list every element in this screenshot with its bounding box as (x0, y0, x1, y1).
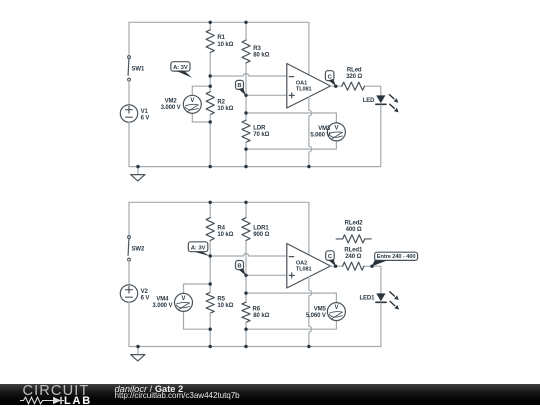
svg-text:R6: R6 (253, 306, 261, 312)
svg-text:Entre 240 - 400: Entre 240 - 400 (377, 254, 416, 260)
node A junction (209, 74, 212, 77)
svg-text:5.060 V: 5.060 V (310, 133, 330, 139)
op-amp OA2 (287, 244, 331, 289)
node B callout (bottom) (236, 261, 244, 270)
junction R6 rail (244, 345, 247, 348)
LED emission arrows (389, 95, 394, 99)
svg-text:10 kΩ: 10 kΩ (217, 232, 233, 238)
wire left rail upper segment (128, 22, 130, 56)
node ground junction (136, 165, 139, 168)
junction VM4 top (209, 282, 212, 285)
op-amp OA1 (287, 64, 331, 109)
wire bottom rail (2) (129, 346, 381, 348)
junction V- rail (307, 165, 310, 168)
resistor R4 (209, 202, 211, 217)
CircuitLab logo text (23, 383, 90, 399)
svg-text:A: 3V: A: 3V (173, 65, 188, 71)
junction R6 bottom / VM5 (244, 328, 247, 331)
wire op-amp V- stub (309, 97, 312, 167)
voltmeter VM3 (246, 113, 336, 123)
wire V1 to bottom rail (128, 122, 130, 166)
junction VM2 bottom (209, 120, 212, 123)
switch SW1 (127, 59, 130, 76)
junction LDR bottom / VM3 (244, 147, 247, 150)
switch SW2 (127, 239, 130, 256)
wire non-inverting input (node B to op-amp) (246, 94, 287, 96)
LED (376, 95, 385, 103)
wire switch to V2 (128, 261, 130, 285)
junction VM4 bottom (209, 328, 212, 331)
svg-text:LED1: LED1 (359, 296, 375, 302)
svg-text:VM2: VM2 (165, 98, 178, 104)
svg-text:B: B (237, 83, 241, 89)
voltmeter VM2 (192, 86, 210, 95)
ground (137, 167, 139, 175)
junction R5 bottom rail (209, 345, 212, 348)
voltage source V2 (120, 285, 137, 302)
junction R4 top (209, 201, 212, 204)
photoresistor LDR1 (245, 202, 247, 217)
svg-text:RLed1: RLed1 (344, 248, 363, 254)
node C junction (2) (334, 265, 337, 268)
footer title line (115, 384, 184, 394)
svg-text:A: 3V: A: 3V (191, 246, 206, 252)
svg-text:3.000 V: 3.000 V (152, 303, 172, 309)
node C callout (top) (325, 71, 334, 81)
resistor RLed2 (unconnected) (336, 238, 343, 240)
voltmeter VM4 (184, 284, 211, 294)
node A callout (bottom) (188, 242, 208, 252)
svg-text:6 V: 6 V (141, 116, 150, 122)
svg-text:3.000 V: 3.000 V (161, 105, 181, 111)
ground (2) (137, 347, 139, 355)
svg-text:80 kΩ: 80 kΩ (253, 53, 269, 59)
LED1 emission arrows (390, 292, 395, 296)
resistor R2 (206, 92, 214, 115)
node C callout (bottom) (326, 251, 335, 261)
svg-text:RLed2: RLed2 (345, 220, 364, 226)
svg-text:B: B (237, 264, 241, 270)
junction R2 bottom rail (209, 165, 212, 168)
svg-text:LDR1: LDR1 (253, 226, 269, 232)
node A callout (top) (171, 62, 190, 71)
wire top rail and op-amp V+ stub (129, 22, 309, 75)
svg-text:V2: V2 (141, 289, 149, 295)
svg-text:R5: R5 (217, 297, 225, 303)
junction Entre annotation anchor (370, 265, 373, 268)
wire top rail and op-amp V+ stub (2) (129, 202, 309, 255)
wire inverting input (node A to op-amp) (210, 74, 287, 76)
svg-text:TL081: TL081 (296, 266, 312, 272)
wire left rail upper segment (2) (128, 202, 130, 236)
svg-text:400 Ω: 400 Ω (346, 227, 362, 233)
resistor R5 (206, 292, 214, 313)
wire switch to V1 (128, 81, 130, 105)
svg-text:LED: LED (363, 98, 375, 104)
svg-text:V: V (334, 305, 338, 311)
voltage source V1 (120, 105, 137, 122)
svg-text:VM5: VM5 (314, 307, 327, 313)
svg-text:5.060 V: 5.060 V (306, 313, 326, 319)
svg-text:900 Ω: 900 Ω (253, 232, 269, 238)
wire non-inverting input (node B to op-amp) (2) (246, 274, 287, 276)
wire bottom rail (129, 166, 381, 168)
svg-text:SW1: SW1 (132, 67, 145, 73)
svg-text:R2: R2 (217, 99, 225, 105)
wire op-amp V- stub (2) (309, 277, 312, 347)
svg-text:VM3: VM3 (318, 126, 331, 132)
svg-text:6 V: 6 V (141, 296, 150, 302)
wire inverting input (node A to op-amp) (2) (210, 254, 287, 256)
svg-text:V: V (334, 126, 338, 132)
LED1 (376, 293, 385, 301)
svg-text:R4: R4 (217, 226, 225, 232)
svg-text:240 Ω: 240 Ω (345, 254, 361, 260)
svg-text:SW2: SW2 (132, 247, 145, 253)
svg-text:V1: V1 (141, 109, 149, 115)
junction VM2 top (209, 85, 212, 88)
svg-text:V: V (182, 296, 186, 302)
footer bar (0, 384, 540, 405)
CircuitLab logo resistor-diode glyph (20, 396, 66, 405)
node A junction (2) (209, 254, 212, 257)
photoresistor LDR (242, 120, 250, 142)
svg-text:10 kΩ: 10 kΩ (217, 106, 233, 112)
svg-text:70 kΩ: 70 kΩ (253, 132, 269, 138)
junction R1 top (209, 21, 212, 24)
wire op-amp output lead (2) (331, 265, 336, 267)
svg-text:10 kΩ: 10 kΩ (217, 303, 233, 309)
svg-text:R3: R3 (253, 46, 261, 52)
svg-text:R1: R1 (217, 35, 225, 41)
node B callout (top) (236, 80, 244, 89)
node C junction (334, 85, 337, 88)
resistor RLed1 (336, 265, 343, 267)
junction V- rail (2) (307, 345, 310, 348)
resistor RLed (336, 85, 342, 87)
resistor R1 (209, 22, 211, 30)
svg-text:V: V (190, 98, 194, 104)
node ground junction (2) (136, 345, 139, 348)
junction R3 top (244, 21, 247, 24)
junction R6 top / VM5 (244, 291, 247, 294)
resistor R6 (242, 302, 250, 322)
footer url line (115, 391, 240, 400)
svg-text:TL081: TL081 (296, 86, 312, 92)
svg-text:320 Ω: 320 Ω (346, 74, 362, 80)
junction LDR top / VM3 (244, 111, 247, 114)
wire V2 to bottom rail (128, 302, 130, 346)
LAB logo text (64, 395, 92, 407)
svg-text:VM4: VM4 (156, 297, 169, 303)
voltmeter VM5 (246, 293, 336, 303)
svg-text:10 kΩ: 10 kΩ (217, 42, 233, 48)
node B junction (2) (244, 274, 247, 277)
junction LDR rail (244, 165, 247, 168)
annotation Entre 240 - 400 (375, 252, 418, 260)
wire op-amp output lead (331, 85, 336, 87)
svg-text:RLed: RLed (347, 68, 362, 74)
svg-text:80 kΩ: 80 kΩ (253, 313, 269, 319)
node B junction (244, 94, 247, 97)
junction LDR1 top (244, 201, 247, 204)
resistor R3 (245, 22, 247, 40)
svg-text:LDR: LDR (253, 126, 266, 132)
